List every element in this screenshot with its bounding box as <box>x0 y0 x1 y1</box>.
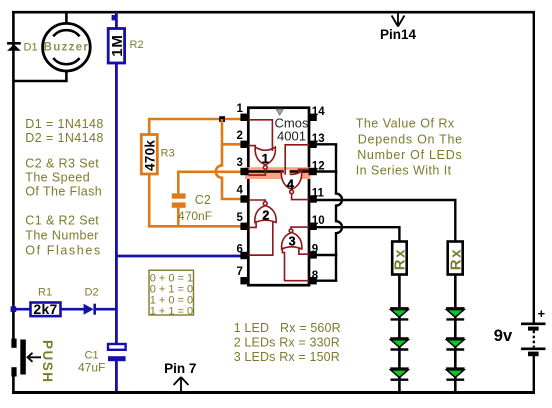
node Pin7 marker <box>164 361 196 391</box>
wire gate1 in from pin1 <box>249 120 273 151</box>
svg-text:PUSH: PUSH <box>40 340 55 384</box>
pin 7 <box>240 277 248 284</box>
wire gate4 out to pin11 <box>292 194 309 200</box>
svg-text:The Value Of Rx: The Value Of Rx <box>356 117 455 131</box>
wire pin3 to pin12 black <box>244 170 313 172</box>
pin 14 <box>309 114 317 121</box>
wire buzzer top <box>65 12 68 24</box>
svg-text:Of The Flash: Of The Flash <box>25 185 102 199</box>
capacitor C1 <box>78 344 126 375</box>
LED D7 <box>446 339 464 350</box>
pin number labels <box>237 103 326 282</box>
svg-text:2: 2 <box>237 130 243 142</box>
wire gate2 in from pin6 <box>249 222 273 255</box>
wire C1 bottom <box>115 361 118 391</box>
svg-text:The Speed: The Speed <box>25 171 90 185</box>
pin 6 <box>240 252 248 259</box>
pin 2 <box>240 141 248 148</box>
wire pin12 stub <box>317 170 338 172</box>
note C1 R2 <box>25 214 101 258</box>
svg-text:14: 14 <box>312 106 325 118</box>
svg-text:1 LED Rx = 560R: 1 LED Rx = 560R <box>234 321 341 335</box>
svg-text:10: 10 <box>312 215 325 227</box>
svg-text:D1 = 1N4148: D1 = 1N4148 <box>25 117 103 131</box>
gate U1c (3) <box>282 229 302 249</box>
IC notch <box>276 109 283 115</box>
pin 11 <box>309 195 317 202</box>
svg-text:Number Of LEDs: Number Of LEDs <box>357 148 462 162</box>
IC U1 Cmos 4001 body <box>248 108 309 286</box>
wire rail to R1 <box>13 308 31 311</box>
pin 10 <box>309 223 317 230</box>
note LED Rx table <box>234 321 341 364</box>
svg-text:3 LEDs Rx = 150R: 3 LEDs Rx = 150R <box>234 350 340 364</box>
diode D2 <box>84 287 99 315</box>
node Pin14 marker <box>380 13 417 42</box>
wire right rail upper <box>533 12 535 323</box>
wire pin9 stub <box>317 254 338 256</box>
pin 12 <box>309 168 317 175</box>
svg-text:1 + 1 = 0: 1 + 1 = 0 <box>150 305 193 317</box>
svg-text:5: 5 <box>237 212 244 224</box>
wire R3 top to pin1 <box>149 119 241 135</box>
wire gate3 out to pin10 <box>291 227 309 229</box>
wire gate2 in from pin5 <box>249 222 257 228</box>
pin 13 <box>309 141 317 148</box>
node R2 top junction <box>112 15 117 20</box>
svg-text:1M: 1M <box>109 34 126 56</box>
svg-text:3: 3 <box>289 235 296 249</box>
wire blue to pin6 <box>116 255 241 258</box>
pin 9 <box>309 251 317 258</box>
LED D8 <box>446 369 464 380</box>
pin 4 <box>240 195 248 202</box>
wire junction to pin2 <box>222 143 241 146</box>
LED D5 <box>390 369 408 380</box>
svg-text:Pin 7: Pin 7 <box>164 361 196 376</box>
wire R1 to D2 <box>61 308 85 311</box>
diode D1 <box>7 42 37 54</box>
svg-text:6: 6 <box>237 243 243 255</box>
svg-text:4: 4 <box>287 178 294 192</box>
pin squares left <box>240 114 316 285</box>
pin 1 <box>240 114 248 121</box>
node orange junction <box>219 116 225 122</box>
pin 3 <box>240 168 248 175</box>
capacitor C2 <box>172 193 212 223</box>
wire left LED column <box>398 275 401 393</box>
svg-text:3: 3 <box>237 157 243 169</box>
wire right tie vertical with hops <box>336 144 342 280</box>
wire C2 top to pin3 <box>178 172 241 194</box>
wire gate2 out to pin4 <box>249 200 266 202</box>
svg-text:2 LEDs Rx = 330R: 2 LEDs Rx = 330R <box>234 336 340 350</box>
svg-text:D1: D1 <box>24 42 38 54</box>
gate U1a (1) <box>255 147 275 169</box>
LED D3 <box>390 308 408 319</box>
wire pin10 to left Rx <box>317 227 400 241</box>
svg-text:2: 2 <box>262 208 269 222</box>
svg-text:Rx: Rx <box>447 248 464 270</box>
wire left rail upper <box>12 12 15 348</box>
resistor R2 <box>108 29 143 64</box>
resistor Rx left <box>392 242 409 275</box>
svg-text:The Number: The Number <box>25 229 98 243</box>
svg-text:D2: D2 <box>85 287 99 299</box>
svg-text:470nF: 470nF <box>178 209 212 223</box>
svg-text:4001: 4001 <box>277 129 306 144</box>
svg-text:D2 = 1N4148: D2 = 1N4148 <box>25 131 103 145</box>
wire buzzer bottom <box>13 71 66 82</box>
svg-text:4: 4 <box>237 185 244 197</box>
gate U1d (4) <box>281 171 301 194</box>
wire pin6 internal <box>249 254 274 256</box>
wire pin11 to right Rx <box>317 200 456 242</box>
resistor Rx right <box>447 242 464 275</box>
svg-text:C2: C2 <box>195 193 211 207</box>
svg-text:+: + <box>538 306 546 321</box>
note truth table <box>149 270 194 317</box>
pin 8 <box>309 277 317 284</box>
wire bottom 0V rail <box>12 391 535 394</box>
wire R2 top <box>115 12 118 29</box>
wire R3 bottom / C2 bottom to pin5 <box>149 174 241 226</box>
LED D4 <box>390 339 408 350</box>
wire D2 to blue vertical <box>96 308 117 311</box>
svg-text:2k7: 2k7 <box>33 301 57 317</box>
svg-text:9v: 9v <box>494 327 513 345</box>
svg-text:47uF: 47uF <box>78 361 105 375</box>
LED D6 <box>446 308 464 319</box>
svg-text:1: 1 <box>262 151 269 166</box>
svg-text:C2 & R3 Set: C2 & R3 Set <box>25 157 99 171</box>
svg-text:R3: R3 <box>161 148 175 160</box>
svg-text:In Series With It: In Series With It <box>356 164 452 178</box>
resistor R1 <box>31 287 61 318</box>
note C2 R3 <box>25 157 102 199</box>
wire gate3 in from pin8 <box>282 248 309 281</box>
gate U1b (2) <box>255 202 276 223</box>
buzzer BZ1 <box>43 23 91 71</box>
wire top +9V rail <box>12 11 535 14</box>
highlight net pin3-pin12 <box>245 167 311 179</box>
wire gate4 in from pin12 <box>298 169 309 173</box>
wire right LED column <box>454 275 457 393</box>
svg-text:Pin14: Pin14 <box>380 27 417 42</box>
svg-text:Of Flashes: Of Flashes <box>25 244 101 258</box>
resistor R3 <box>141 135 174 175</box>
svg-text:Rx: Rx <box>392 248 409 270</box>
svg-text:1: 1 <box>237 103 244 115</box>
wire blue vertical R2 to C1 <box>115 63 118 344</box>
wire orange vertical with hop <box>216 119 241 199</box>
svg-text:R2: R2 <box>130 39 144 51</box>
wire pin8 stub <box>317 280 338 282</box>
svg-text:7: 7 <box>237 266 243 278</box>
svg-text:R1: R1 <box>38 287 52 299</box>
wire gate1 out to pin3 <box>249 169 266 175</box>
wire pin13 stub <box>317 143 338 145</box>
wire gate4 in from pin13 (with crossing break) <box>284 170 290 176</box>
node rail-R1 junction <box>11 306 17 312</box>
battery B1 9v <box>494 306 546 356</box>
svg-text:C1 & R2 Set: C1 & R2 Set <box>25 214 99 228</box>
switch PUSH <box>11 339 55 384</box>
svg-text:470k: 470k <box>143 140 158 171</box>
note Rx value <box>356 117 463 178</box>
svg-text:Depends On The: Depends On The <box>358 132 463 146</box>
wire left rail lower <box>12 376 15 393</box>
wire gate3 in from pin9 <box>299 248 309 254</box>
note diodes <box>25 117 103 145</box>
wire right rail lower <box>533 356 535 392</box>
svg-text:Buzzer: Buzzer <box>44 41 90 53</box>
svg-text:11: 11 <box>312 188 325 200</box>
pin 5 <box>240 223 248 230</box>
wire gate1 in from pin2 <box>249 146 256 148</box>
